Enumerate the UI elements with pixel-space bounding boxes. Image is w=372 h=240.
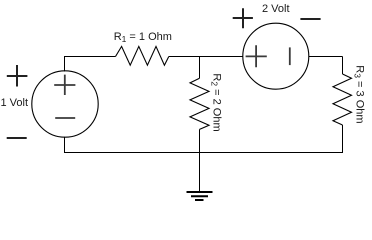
resistor R1 <box>116 46 169 65</box>
wire: V1 bottom stem <box>64 137 66 153</box>
wire: bottom rail <box>64 152 343 154</box>
V1 internal + mark <box>54 75 75 95</box>
wire: V2 right to top-right corner <box>309 57 343 75</box>
V2 internal + mark <box>246 45 267 67</box>
resistor R3 <box>333 74 352 125</box>
svg-text:2 Volt: 2 Volt <box>262 3 290 15</box>
V2 internal - mark (vertical bar) <box>289 47 291 65</box>
wire: ground stem <box>199 153 201 192</box>
resistor R2 <box>190 78 209 129</box>
wire: node A down to R2 <box>199 56 201 78</box>
voltage source V1 (1 Volt) <box>32 71 98 137</box>
V2 external + polarity symbol <box>233 8 253 28</box>
wire: top-left segment V1 to R1 <box>64 56 116 58</box>
V2 external - polarity symbol <box>300 18 320 20</box>
voltage source V2 (2 Volt) <box>243 23 309 89</box>
svg-text:R3 = 3 Ohm: R3 = 3 Ohm <box>353 65 366 123</box>
ground <box>187 192 213 200</box>
V1 external + polarity symbol <box>7 65 28 87</box>
wire: R2 bottom lead to bottom rail <box>199 129 201 153</box>
wire: V1 top stem <box>64 56 66 72</box>
svg-text:R2 = 2 Ohm: R2 = 2 Ohm <box>210 73 223 131</box>
V1 internal - mark <box>55 117 75 119</box>
V1 external - polarity symbol <box>7 137 27 139</box>
svg-text:1 Volt: 1 Volt <box>1 97 29 109</box>
svg-text:R1 = 1 Ohm: R1 = 1 Ohm <box>114 31 172 44</box>
wire: R1 to node A and V2 <box>169 56 243 58</box>
wire: R3 bottom lead to bottom rail <box>342 125 344 153</box>
